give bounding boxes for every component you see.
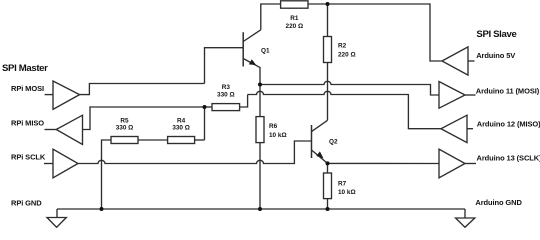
svg-text:R6: R6 xyxy=(269,123,278,130)
svg-text:220 Ω: 220 Ω xyxy=(338,52,356,59)
svg-text:RPi MOSI: RPi MOSI xyxy=(11,84,44,93)
svg-text:RPi SCLK: RPi SCLK xyxy=(11,153,46,162)
svg-text:SPI Slave: SPI Slave xyxy=(476,29,516,40)
svg-text:RPi MISO: RPi MISO xyxy=(11,119,44,128)
svg-text:RPi GND: RPi GND xyxy=(11,199,42,208)
svg-text:SPI Master: SPI Master xyxy=(2,63,48,74)
svg-text:330 Ω: 330 Ω xyxy=(217,91,235,98)
svg-text:330 Ω: 330 Ω xyxy=(116,125,134,132)
svg-text:330 Ω: 330 Ω xyxy=(172,125,190,132)
svg-text:R2: R2 xyxy=(338,43,347,50)
svg-text:10 kΩ: 10 kΩ xyxy=(269,132,287,139)
svg-text:Arduino 5V: Arduino 5V xyxy=(476,51,515,60)
svg-text:R1: R1 xyxy=(290,15,299,22)
svg-text:Arduino 11 (MOSI): Arduino 11 (MOSI) xyxy=(476,86,540,95)
svg-text:R7: R7 xyxy=(338,181,347,188)
svg-text:220 Ω: 220 Ω xyxy=(286,23,304,30)
svg-text:Arduino 13 (SCLK): Arduino 13 (SCLK) xyxy=(477,154,540,163)
svg-text:10 kΩ: 10 kΩ xyxy=(338,189,356,196)
svg-text:Arduino GND: Arduino GND xyxy=(475,198,522,207)
svg-text:Q1: Q1 xyxy=(261,47,270,54)
svg-text:R3: R3 xyxy=(222,84,231,91)
svg-text:R5: R5 xyxy=(120,117,129,124)
svg-text:Arduino 12 (MISO): Arduino 12 (MISO) xyxy=(477,119,540,128)
svg-text:Q2: Q2 xyxy=(329,139,338,146)
svg-text:R4: R4 xyxy=(177,117,186,124)
